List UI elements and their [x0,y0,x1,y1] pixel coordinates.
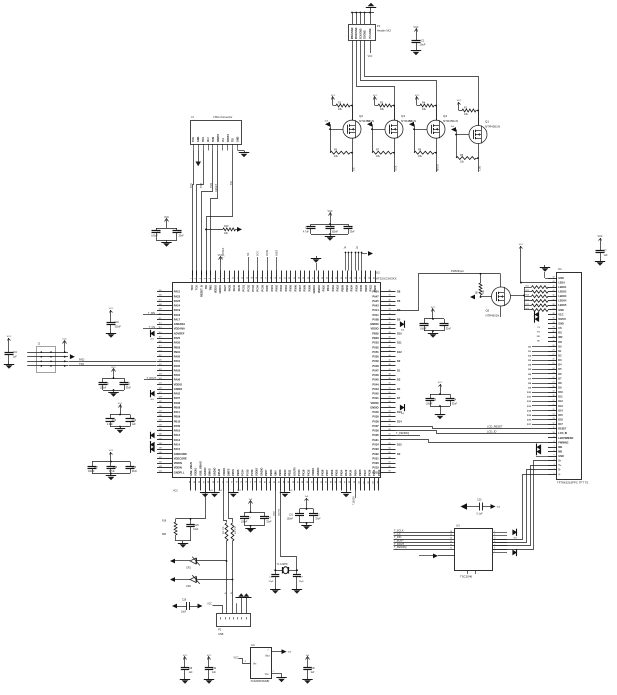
svg-text:TDI: TDI [230,181,233,185]
svg-text:VCC: VCC [438,382,443,384]
wire gate of Q3 [372,129,385,131]
svg-text:C24: C24 [266,517,271,519]
svg-text:135: 135 [159,429,162,431]
wire XIN [275,491,277,570]
svg-text:32: 32 [336,277,338,279]
svg-text:95: 95 [335,481,337,483]
svg-text:7: 7 [554,445,555,447]
svg-text:65: 65 [389,452,391,454]
svg-text:VDDIO: VDDIO [255,468,259,476]
svg-text:VCC: VCC [233,656,238,659]
power VCC [120,405,122,411]
svg-text:84: 84 [283,481,285,483]
svg-text:USB_VBUS: USB_VBUS [189,462,193,476]
svg-text:VDDIN: VDDIN [174,466,182,470]
ground [307,677,309,679]
svg-text:GNDIO: GNDIO [259,468,263,476]
capacitor C26 22pF [275,570,277,574]
svg-text:4: 4 [494,541,495,543]
svg-text:Q2: Q2 [359,114,363,118]
svg-text:XIN0: XIN0 [274,470,278,476]
svg-text:PX44: PX44 [372,382,379,386]
svg-text:VCC: VCC [597,235,602,238]
svg-text:47: 47 [389,369,391,371]
node flag U3 [512,550,517,556]
svg-text:21: 21 [284,277,286,279]
svg-text:88: 88 [302,481,304,483]
svg-text:1uF: 1uF [132,424,137,426]
svg-text:PX11: PX11 [373,313,380,317]
svg-text:PA17: PA17 [174,317,181,321]
svg-text:20: 20 [553,386,555,388]
wire Q5 gate [481,296,492,298]
capacitor C15 2.2uF [120,411,122,415]
ground [120,427,122,429]
svg-text:VDDIO: VDDIO [371,327,379,331]
svg-text:140: 140 [159,452,162,454]
svg-text:D11: D11 [558,396,563,399]
svg-text:57: 57 [389,415,391,417]
connector J2 [37,347,56,373]
svg-text:22: 22 [289,277,291,279]
svg-text:69: 69 [389,471,391,473]
power VCC [113,369,115,375]
svg-text:66: 66 [199,481,201,483]
ground U1 pin1 [545,278,548,280]
svg-text:PX04: PX04 [284,284,288,291]
svg-text:68R: 68R [162,534,167,536]
svg-text:PX01: PX01 [270,284,274,291]
svg-text:PX35: PX35 [359,284,363,291]
svg-text:PB09: PB09 [345,284,349,291]
svg-text:MISO/GND: MISO/GND [352,27,354,39]
power VCC [440,384,442,390]
svg-text:U3: U3 [456,524,460,528]
svg-text:C15: C15 [112,420,117,422]
svg-text:C16: C16 [132,420,137,422]
wire TCK [193,151,194,276]
svg-text:48: 48 [389,373,391,375]
svg-text:PX47: PX47 [363,469,367,476]
svg-text:PX35: PX35 [372,433,379,437]
svg-text:VCC: VCC [207,604,212,606]
resistor R13 LEDK3 [524,296,532,298]
resistor R5 10k [456,157,476,160]
svg-text:90: 90 [312,481,314,483]
resistor R4 10k [416,97,418,103]
svg-text:TMS: TMS [210,183,213,188]
resistor R21 27R [225,523,228,541]
svg-text:D13: D13 [558,405,563,408]
svg-text:1: 1 [554,473,555,475]
svg-text:36: 36 [553,313,555,315]
svg-text:T_CS: T_CS [149,326,156,329]
svg-text:56: 56 [389,410,391,412]
svg-text:22pF: 22pF [299,581,305,583]
svg-text:33nF: 33nF [446,329,452,331]
svg-text:PB05: PB05 [358,469,362,476]
svg-text:130: 130 [159,406,162,408]
power VCC [600,238,602,244]
wire gate of Q4 [414,129,427,131]
svg-text:101: 101 [363,481,365,484]
svg-text:15: 15 [553,409,555,411]
svg-text:100nF: 100nF [151,236,158,238]
ground [440,406,442,413]
power VCC [184,657,186,663]
resistor R11 LEDK1 [524,287,532,289]
svg-text:33nF: 33nF [126,388,132,390]
svg-text:VCC: VCC [164,216,169,219]
ground [238,150,244,152]
svg-text:TDO: TDO [202,137,205,142]
ground [432,331,434,333]
svg-text:10: 10 [553,432,555,434]
resistor R3 10k [374,97,376,103]
wire TMS [202,151,213,276]
svg-text:PB00: PB00 [373,284,377,291]
capacitor C29 1uF [184,663,186,668]
svg-text:NSRST: NSRST [217,133,220,142]
capacitor C17 100nF [110,458,112,462]
svg-text:PC02: PC02 [246,284,250,291]
svg-text:PX37: PX37 [372,424,379,428]
svg-text:TDO: TDO [190,285,194,290]
svg-text:PX10: PX10 [322,284,326,291]
svg-text:19: 19 [275,277,277,279]
svg-text:T_BUSY: T_BUSY [354,496,356,505]
svg-text:PA09: PA09 [174,424,181,428]
svg-text:33nF: 33nF [132,471,138,473]
svg-text:NTR4501N: NTR4501N [485,124,500,128]
svg-text:5: 5 [494,544,495,546]
svg-text:67: 67 [204,481,206,483]
power VCC top pin [220,257,222,263]
svg-text:VCC: VCC [413,26,418,29]
svg-text:2: 2 [268,650,269,652]
svg-text:136: 136 [159,434,162,436]
svg-text:VDDANA: VDDANA [174,327,185,331]
svg-text:PC01: PC01 [242,284,246,291]
IC U2 AT32UC3A3XX [173,283,381,478]
svg-text:82: 82 [274,481,276,483]
svg-text:LCD_RESET: LCD_RESET [487,424,503,428]
svg-text:PX12: PX12 [377,469,381,476]
wire source of Q2 to net SS [352,138,354,172]
wire SCK to Q4 [361,41,437,121]
svg-text:VCC: VCC [558,313,563,316]
svg-text:PA05: PA05 [174,364,181,368]
svg-text:PX15: PX15 [306,469,310,476]
svg-text:LEDPWM/NC: LEDPWM/NC [558,437,573,440]
U2 bottom pins [190,478,192,491]
wire Y+ to touch [493,466,549,546]
U3 bottom pins [467,570,469,574]
svg-text:14: 14 [252,277,254,279]
svg-text:PX09: PX09 [307,284,311,291]
svg-text:TCK: TCK [195,285,199,290]
svg-text:33nF: 33nF [452,404,458,406]
capacitor C1 10uF [416,35,418,41]
svg-text:33: 33 [389,304,391,306]
svg-text:106: 106 [159,295,162,297]
svg-text:91: 91 [316,481,318,483]
svg-text:PA03: PA03 [174,368,181,372]
svg-text:TDI: TDI [232,138,235,142]
svg-text:100: 100 [359,481,361,484]
svg-text:T_PENIRQ: T_PENIRQ [394,546,407,549]
svg-text:XC6206P332MR: XC6206P332MR [251,680,270,683]
svg-text:8: 8 [554,441,555,443]
svg-text:109: 109 [159,309,162,311]
svg-text:3: 3 [554,464,555,466]
svg-text:1uF: 1uF [212,672,217,674]
power VCC [250,501,252,507]
svg-text:GND: GND [558,277,564,280]
transistor Q5 NTR4501N [492,287,511,306]
svg-text:PX40: PX40 [372,410,379,414]
svg-text:13: 13 [450,541,452,543]
svg-text:PB06: PB06 [236,469,240,476]
svg-text:PX46: PX46 [372,373,379,377]
svg-text:PA27: PA27 [223,284,227,291]
svg-text:44: 44 [553,276,555,278]
svg-text:USB_VBIAS: USB_VBIAS [198,461,202,476]
svg-text:R21 27R: R21 27R [223,526,225,534]
svg-text:TDI: TDI [204,285,208,289]
svg-text:18: 18 [553,395,555,397]
svg-text:31: 31 [331,277,333,279]
svg-text:64: 64 [389,448,391,450]
svg-text:51: 51 [389,387,391,389]
svg-text:30: 30 [553,340,555,342]
svg-text:118: 118 [159,350,162,352]
svg-text:PB04: PB04 [353,469,357,476]
svg-text:NTR4501N: NTR4501N [443,119,458,123]
svg-text:PX11: PX11 [326,284,330,291]
svg-text:LCD_ID: LCD_ID [487,430,496,434]
wire D- from U2 [229,491,233,523]
wire RESET [211,151,218,276]
svg-text:PA10: PA10 [174,429,181,433]
svg-text:6: 6 [554,450,555,452]
ground U1 GND pin39 [536,456,548,458]
svg-text:PX55: PX55 [335,469,339,476]
capacitor C31 1uF [8,344,10,352]
svg-text:39: 39 [389,332,391,334]
svg-text:PA02: PA02 [174,392,181,396]
svg-text:PX36: PX36 [368,469,372,476]
wire Q5 to LED rail [511,295,525,297]
svg-text:VDDIO: VDDIO [371,401,379,405]
svg-text:PX08: PX08 [372,317,379,321]
svg-text:GND: GND [558,323,564,326]
power 3v3 [307,657,309,663]
svg-text:Header 5X2: Header 5X2 [377,29,392,33]
svg-text:CS0: CS0 [478,165,482,171]
capacitor C10 100nF [110,316,112,322]
svg-text:35: 35 [389,313,391,315]
svg-text:LCD_ID: LCD_ID [558,432,567,435]
svg-text:Y-: Y- [558,473,561,476]
svg-text:68: 68 [208,481,210,483]
wire drain stub Q2 [352,106,354,121]
svg-text:MB: MB [558,450,562,453]
svg-text:1uF: 1uF [604,254,609,257]
capacitor C8 100nF [432,315,434,319]
svg-text:PWMInput: PWMInput [451,269,464,273]
svg-text:PC05: PC05 [260,284,264,291]
svg-text:PB05: PB05 [364,284,368,291]
svg-text:PX34: PX34 [350,284,354,291]
svg-text:PX45: PX45 [372,378,379,382]
svg-text:U2: U2 [376,271,380,275]
svg-text:DPFS: DPFS [231,469,235,476]
svg-text:23: 23 [294,277,296,279]
svg-text:100nF: 100nF [115,326,122,328]
svg-text:20: 20 [280,277,282,279]
svg-text:87: 87 [298,481,300,483]
svg-text:TCK: TCK [192,137,195,142]
ground [250,526,252,528]
svg-text:16: 16 [450,531,452,533]
svg-text:SCK/GND: SCK/GND [360,28,362,39]
svg-text:PB03: PB03 [372,336,379,340]
svg-text:77: 77 [251,481,253,483]
svg-text:D16: D16 [558,418,563,421]
svg-text:CR2: CR2 [186,585,191,588]
svg-text:VCC: VCC [331,95,336,97]
capacitor C30 1uF [307,663,309,668]
ground [110,331,112,333]
svg-text:DMHS: DMHS [208,468,212,476]
svg-text:SS/GND: SS/GND [365,30,367,39]
wire D+ down [226,541,228,613]
svg-text:PX22: PX22 [372,452,379,456]
svg-text:LEDK1: LEDK1 [558,286,567,289]
U3 aux left pin [438,555,455,557]
svg-text:11: 11 [237,277,239,279]
svg-text:VDDIO: VDDIO [317,285,321,293]
svg-text:VDDIO: VDDIO [174,382,182,386]
svg-text:61: 61 [389,434,391,436]
wire Vout [272,651,282,653]
svg-text:76: 76 [246,481,248,483]
svg-text:VDDIO: VDDIO [213,285,217,293]
svg-text:24: 24 [299,277,301,279]
svg-text:PB10: PB10 [283,469,287,476]
svg-text:GNDIO: GNDIO [312,285,316,293]
svg-text:1: 1 [273,671,274,673]
svg-text:T_DIN: T_DIN [148,312,155,315]
svg-text:99: 99 [354,481,356,483]
svg-text:123: 123 [159,373,162,375]
svg-text:66: 66 [389,457,391,459]
svg-text:Vcc: Vcc [222,137,225,142]
svg-text:VCC: VCC [519,244,524,246]
svg-text:31: 31 [389,295,391,297]
svg-text:96: 96 [340,481,342,483]
svg-text:27: 27 [553,354,555,356]
wire D+ from U2 [224,491,227,523]
wire XOUT [281,491,297,570]
wire gate of Q1 [456,134,469,136]
capacitor C9 33nF [444,319,446,324]
wire gate of Q2 [330,129,343,131]
wire TDO [197,151,204,276]
svg-text:PA04: PA04 [174,373,181,377]
ground [600,259,602,261]
svg-text:PX19: PX19 [372,466,379,470]
svg-text:65: 65 [194,481,196,483]
svg-text:62: 62 [389,438,391,440]
svg-text:PA13: PA13 [174,438,181,442]
wire drain stub Q1 [478,111,480,126]
svg-text:PA14: PA14 [174,442,181,446]
ground [296,587,298,589]
svg-text:119: 119 [159,355,162,357]
svg-text:7: 7 [219,278,221,279]
svg-text:34: 34 [346,277,348,279]
connector P1 Header 5X2 [349,25,376,41]
svg-text:73: 73 [232,481,234,483]
svg-text:24: 24 [553,368,555,370]
U2 left pins [157,291,172,293]
svg-text:67: 67 [389,461,391,463]
svg-text:38: 38 [389,327,391,329]
svg-text:116: 116 [159,341,162,343]
svg-text:RESET_N: RESET_N [199,285,203,297]
svg-text:CS: CS [558,327,562,330]
svg-text:32: 32 [389,299,391,301]
svg-text:D14: D14 [397,420,402,423]
svg-text:PX54: PX54 [339,469,343,476]
ground flag [346,491,348,493]
svg-text:VCC: VCC [457,100,462,102]
svg-text:C19: C19 [132,467,137,469]
svg-text:VCC: VCC [109,450,114,452]
svg-text:142: 142 [159,461,162,463]
transistor Q2 NTR4501N [343,120,361,138]
power VCC [208,657,210,663]
ground [416,49,418,51]
svg-text:137: 137 [159,438,162,440]
svg-text:VCC: VCC [373,95,378,97]
svg-text:Q4: Q4 [443,114,447,118]
svg-text:2: 2 [195,278,197,279]
svg-text:VCC: VCC [7,336,12,338]
connector U1 TFT [557,273,582,480]
svg-text:C12: C12 [126,383,131,385]
svg-text:PX52: PX52 [372,345,379,349]
svg-text:131: 131 [159,410,162,412]
svg-text:33: 33 [553,327,555,329]
svg-text:85: 85 [288,481,290,483]
transistor Q3 NTR4501N [385,120,403,138]
svg-text:P1: P1 [377,24,381,28]
ground flag on GND pin [195,162,201,167]
svg-text:PA24: PA24 [174,304,181,308]
capacitor C25 10uF [190,518,192,520]
svg-text:PB02: PB02 [372,331,379,335]
svg-text:TMS: TMS [209,285,213,291]
resistor R1 10k [458,102,460,108]
svg-text:D14: D14 [558,409,563,412]
svg-text:42: 42 [389,346,391,348]
svg-text:6: 6 [214,278,216,279]
IC U3 TSC2046 [455,529,493,571]
resistor R6 10k [330,151,350,154]
